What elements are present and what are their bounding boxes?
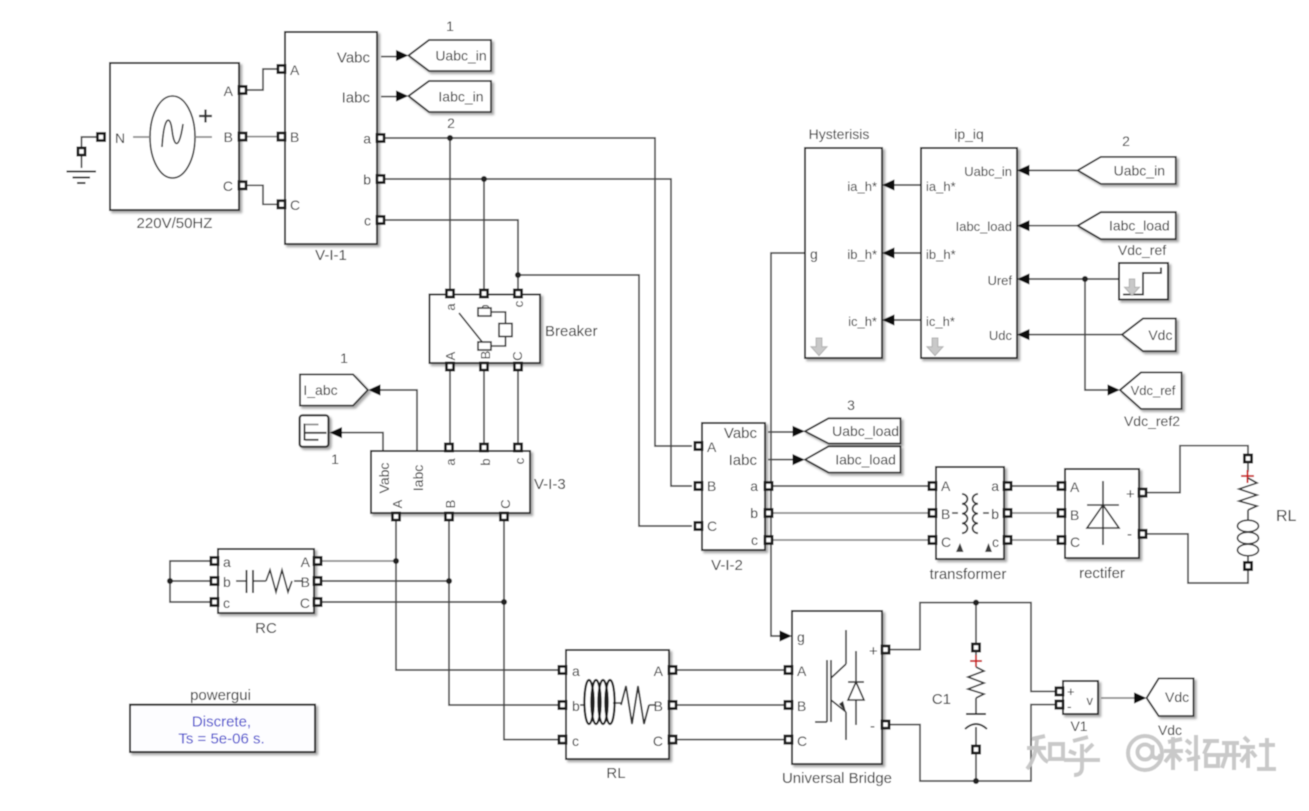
svg-text:Uref: Uref [987, 273, 1012, 288]
svg-text:ib_h*: ib_h* [926, 247, 956, 262]
svg-text:-: - [870, 718, 875, 735]
svg-text:I_abc: I_abc [303, 382, 337, 398]
svg-text:ia_h*: ia_h* [847, 179, 877, 194]
svg-text:C: C [498, 499, 513, 508]
svg-text:Iabc_in: Iabc_in [438, 89, 483, 105]
svg-text:C: C [290, 197, 300, 213]
svg-text:Iabc: Iabc [342, 90, 371, 107]
svg-text:ib_h*: ib_h* [847, 247, 877, 262]
svg-text:RL: RL [1276, 508, 1297, 525]
svg-text:2: 2 [1122, 133, 1130, 149]
svg-text:Vdc_ref2: Vdc_ref2 [1124, 413, 1180, 429]
svg-text:1: 1 [331, 451, 339, 467]
svg-text:C: C [510, 351, 525, 360]
svg-text:C: C [223, 178, 233, 194]
svg-text:Uabc_in: Uabc_in [964, 164, 1012, 179]
svg-text:A: A [654, 663, 664, 679]
svg-text:c: c [572, 733, 579, 749]
svg-text:V-I-1: V-I-1 [315, 247, 347, 264]
svg-text:Vabc: Vabc [724, 425, 758, 442]
svg-text:B: B [707, 478, 716, 494]
svg-text:B: B [797, 698, 806, 714]
svg-text:a: a [363, 131, 371, 147]
svg-text:Vdc: Vdc [1148, 327, 1172, 343]
svg-text:RL: RL [606, 765, 625, 782]
svg-text:B: B [478, 351, 493, 360]
svg-text:B: B [654, 698, 663, 714]
svg-text:Vdc: Vdc [1165, 689, 1189, 705]
svg-text:a: a [443, 303, 458, 311]
svg-text:C: C [1070, 534, 1080, 550]
svg-text:a: a [572, 663, 580, 679]
svg-text:c: c [751, 532, 758, 548]
svg-text:b: b [750, 505, 758, 521]
svg-text:c: c [511, 300, 526, 307]
svg-text:2: 2 [447, 115, 455, 131]
svg-text:Iabc: Iabc [410, 465, 426, 491]
svg-text:A: A [797, 663, 807, 679]
svg-text:ip_iq: ip_iq [954, 126, 984, 142]
svg-text:ia_h*: ia_h* [926, 179, 956, 194]
svg-text:Vabc: Vabc [337, 50, 371, 67]
svg-text:-: - [1067, 698, 1072, 714]
svg-text:C: C [941, 534, 951, 550]
svg-text:Ts = 5e-06 s.: Ts = 5e-06 s. [178, 731, 264, 748]
svg-text:B: B [443, 500, 458, 509]
svg-text:ic_h*: ic_h* [848, 314, 877, 329]
svg-text:ic_h*: ic_h* [926, 314, 955, 329]
svg-text:Uabc_in: Uabc_in [1114, 162, 1165, 178]
svg-text:powergui: powergui [190, 687, 251, 704]
svg-text:1: 1 [340, 350, 348, 366]
svg-text:V-I-2: V-I-2 [711, 557, 743, 574]
svg-text:a: a [750, 478, 758, 494]
svg-text:C: C [653, 733, 663, 749]
svg-text:V1: V1 [1070, 718, 1087, 734]
svg-text:A: A [290, 62, 300, 78]
svg-text:transformer: transformer [930, 566, 1007, 583]
svg-text:A: A [941, 478, 951, 494]
svg-text:b: b [991, 506, 999, 522]
svg-text:3: 3 [847, 397, 855, 413]
svg-text:Vdc_ref: Vdc_ref [1131, 383, 1176, 398]
svg-text:rectifer: rectifer [1079, 565, 1125, 582]
svg-text:v: v [1087, 693, 1094, 708]
svg-text:Vdc: Vdc [1158, 722, 1182, 738]
svg-text:Uabc_load: Uabc_load [832, 423, 899, 439]
svg-text:B: B [941, 506, 950, 522]
svg-text:g: g [797, 629, 805, 645]
svg-text:a: a [991, 478, 999, 494]
svg-text:c: c [364, 213, 371, 229]
svg-text:b: b [363, 172, 371, 188]
svg-text:g: g [810, 246, 818, 262]
svg-text:Uabc_in: Uabc_in [435, 48, 486, 64]
svg-text:B: B [224, 129, 233, 145]
svg-text:Udc: Udc [989, 328, 1013, 343]
svg-text:a: a [223, 554, 231, 570]
svg-text:B: B [301, 574, 310, 590]
svg-text:A: A [1070, 479, 1080, 495]
svg-text:C: C [707, 518, 717, 534]
svg-text:A: A [707, 439, 717, 455]
svg-text:Breaker: Breaker [545, 323, 598, 340]
svg-text:+: + [1126, 486, 1135, 503]
svg-text:Iabc_load: Iabc_load [956, 219, 1012, 234]
svg-text:b: b [223, 574, 231, 590]
svg-text:c: c [992, 534, 999, 550]
svg-text:a: a [443, 458, 458, 466]
svg-text:1: 1 [446, 18, 454, 34]
svg-text:Hysterisis: Hysterisis [809, 126, 870, 142]
svg-text:V-I-3: V-I-3 [534, 476, 566, 493]
svg-text:C1: C1 [932, 691, 951, 708]
svg-text:RC: RC [255, 620, 277, 637]
svg-text:B: B [290, 129, 299, 145]
svg-text:A: A [224, 83, 234, 99]
svg-text:c: c [512, 457, 527, 464]
svg-text:A: A [443, 351, 458, 360]
svg-text:Vdc_ref: Vdc_ref [1118, 242, 1166, 258]
svg-text:A: A [301, 554, 311, 570]
svg-text:B: B [1070, 507, 1079, 523]
svg-text:b: b [572, 698, 580, 714]
svg-text:A: A [390, 499, 405, 508]
svg-text:b: b [478, 458, 493, 465]
svg-text:+: + [869, 643, 878, 660]
svg-text:Vabc: Vabc [376, 463, 392, 494]
svg-text:Discrete,: Discrete, [192, 714, 251, 731]
svg-text:+: + [1067, 684, 1075, 699]
svg-text:Universal Bridge: Universal Bridge [782, 770, 892, 787]
svg-text:C: C [797, 733, 807, 749]
svg-text:c: c [223, 595, 230, 611]
svg-text:Iabc_load: Iabc_load [1109, 218, 1170, 234]
svg-text:-: - [1127, 526, 1132, 543]
svg-text:220V/50HZ: 220V/50HZ [137, 215, 213, 232]
svg-text:N: N [115, 130, 125, 146]
svg-text:Iabc_load: Iabc_load [835, 451, 896, 467]
svg-text:Iabc: Iabc [729, 452, 758, 469]
svg-text:C: C [300, 595, 310, 611]
